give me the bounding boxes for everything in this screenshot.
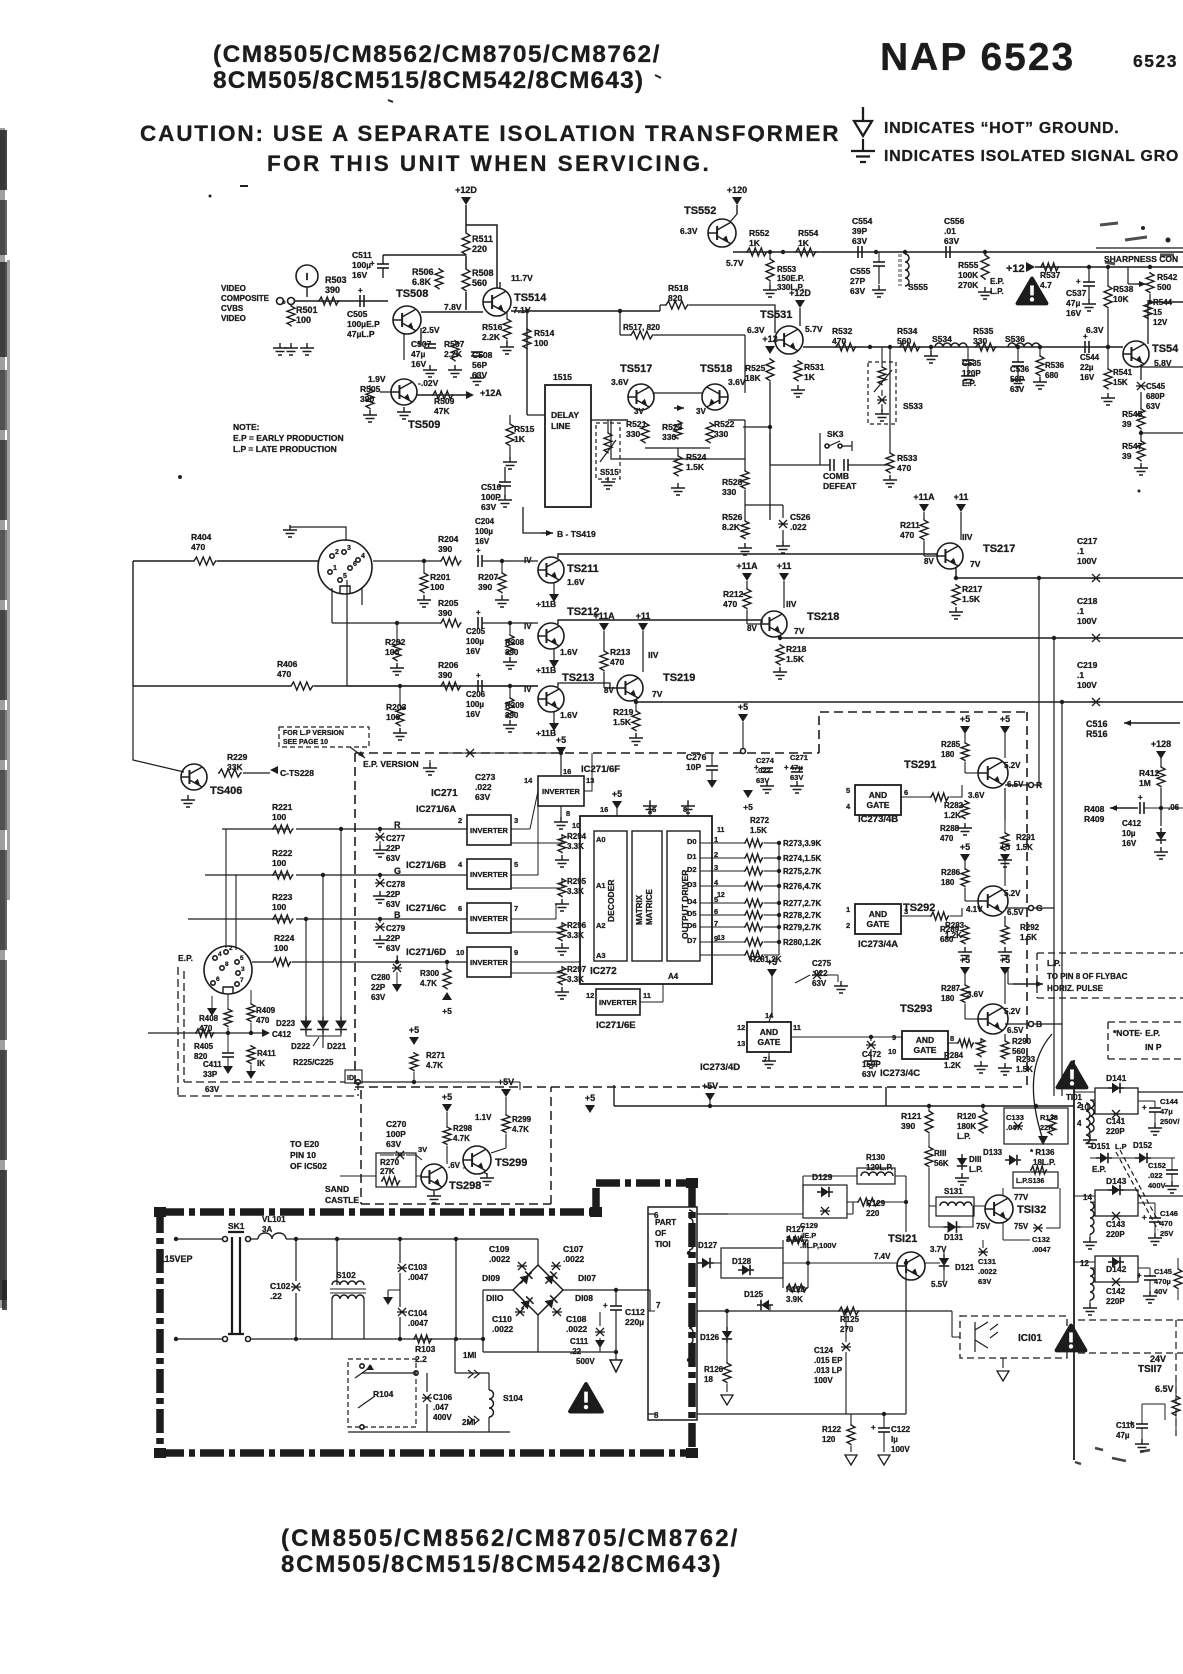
svg-text:.0022: .0022 [978, 1267, 997, 1276]
svg-text:C411: C411 [203, 1060, 222, 1069]
svg-text:100µE.P: 100µE.P [347, 319, 380, 329]
svg-text:S104: S104 [503, 1393, 523, 1403]
svg-text:R128: R128 [786, 1285, 806, 1294]
svg-text:R289: R289 [940, 925, 960, 934]
svg-text:22µ: 22µ [1080, 363, 1094, 372]
inverter IC271/6D [467, 947, 511, 977]
capacitor C111 [595, 1328, 605, 1336]
resistor R212 [743, 588, 751, 610]
capacitor C537 [1087, 265, 1091, 269]
transistor TS213 [538, 686, 564, 712]
svg-text:R273,3.9K: R273,3.9K [783, 839, 821, 848]
svg-text:C204: C204 [475, 517, 495, 526]
svg-text:75V: 75V [976, 1222, 991, 1231]
svg-text:+5: +5 [612, 789, 622, 799]
svg-text:IC273/4B: IC273/4B [858, 814, 898, 825]
resistor R125 [838, 1307, 860, 1315]
resistor R223 [272, 915, 294, 923]
svg-text:C218: C218 [1077, 596, 1098, 606]
svg-text:7: 7 [763, 1055, 767, 1064]
resistor R524 [674, 455, 682, 477]
svg-text:C152: C152 [1148, 1161, 1166, 1170]
svg-text:1.5K: 1.5K [750, 826, 767, 835]
svg-text:47K: 47K [434, 406, 450, 416]
svg-text:100V: 100V [1077, 556, 1097, 566]
svg-text:1: 1 [333, 565, 337, 572]
wire bridge outputs [483, 1290, 650, 1352]
svg-text:CASTLE: CASTLE [325, 1195, 359, 1205]
resistor R538 [1106, 265, 1110, 269]
svg-text:R225/C225: R225/C225 [293, 1058, 334, 1067]
svg-text:100µ: 100µ [475, 527, 493, 536]
svg-text:1515: 1515 [553, 372, 572, 382]
svg-text:C219: C219 [1077, 660, 1098, 670]
svg-text:C280: C280 [371, 973, 391, 982]
diode D127 [698, 1258, 714, 1268]
wire TS514 emitter row [511, 311, 660, 415]
svg-text:R203: R203 [386, 702, 407, 712]
svg-text:+12D: +12D [789, 288, 811, 298]
transistor TS212 [538, 623, 564, 649]
svg-text:16V: 16V [1066, 308, 1081, 318]
resistor R283 [930, 912, 949, 920]
svg-text:COMB: COMB [823, 471, 849, 481]
svg-text:R532: R532 [832, 326, 853, 336]
svg-text:16V: 16V [1080, 373, 1095, 382]
svg-text:C104: C104 [408, 1309, 428, 1318]
svg-text:INVERTER: INVERTER [470, 826, 509, 835]
svg-text:1K: 1K [514, 434, 526, 444]
svg-text:1K: 1K [798, 238, 810, 248]
svg-text:330: 330 [626, 429, 640, 439]
svg-text:R202: R202 [385, 637, 406, 647]
svg-text:C554: C554 [852, 216, 873, 226]
capacitor C112 [615, 1290, 617, 1306]
svg-text:R120: R120 [957, 1112, 977, 1121]
svg-text:+5: +5 [1000, 955, 1010, 965]
capacitor C133 R133 box [1004, 1108, 1068, 1144]
svg-text:1.6V: 1.6V [560, 710, 578, 720]
coil S131 [936, 1197, 974, 1216]
svg-text:R518: R518 [668, 283, 689, 293]
svg-text:D223: D223 [276, 1019, 296, 1028]
inverter IC271/6E [596, 989, 640, 1015]
svg-text:IV: IV [524, 685, 532, 694]
svg-text:C103: C103 [408, 1263, 428, 1272]
svg-text:C112: C112 [625, 1307, 645, 1317]
svg-text:R524: R524 [686, 452, 707, 462]
svg-text:TS217: TS217 [983, 543, 1015, 555]
svg-text:+11B: +11B [536, 728, 556, 738]
trimmer S533 [868, 362, 896, 424]
svg-text:16V: 16V [475, 537, 490, 546]
svg-text:270: 270 [840, 1325, 854, 1334]
svg-text:390: 390 [478, 582, 492, 592]
svg-text:4.7K: 4.7K [453, 1134, 470, 1143]
svg-text:TS508: TS508 [396, 288, 428, 300]
svg-text:C507: C507 [411, 339, 432, 349]
svg-text:C511: C511 [352, 250, 372, 260]
svg-text:*NOTE· E.P.: *NOTE· E.P. [1113, 1028, 1160, 1038]
bridge diodes [517, 1269, 536, 1288]
svg-text:3.3K: 3.3K [567, 931, 584, 940]
wire TS406 up [133, 686, 184, 772]
svg-text:6: 6 [216, 976, 220, 983]
capacitor C132 [1033, 1224, 1043, 1232]
svg-text:R285: R285 [941, 740, 961, 749]
svg-text:7V: 7V [970, 559, 981, 569]
svg-text:(CM8505/CM8562/CM8705/CM8762/: (CM8505/CM8562/CM8705/CM8762/ [213, 41, 661, 68]
warning triangle bottom right [1057, 1326, 1086, 1351]
svg-text:R507: R507 [444, 339, 465, 349]
resistor R554 [795, 248, 817, 256]
svg-text:R209: R209 [505, 701, 525, 710]
transistor TS509 [391, 379, 417, 405]
diode D133 [1005, 1155, 1021, 1165]
transistor TS514 [483, 288, 511, 316]
wire TS552 emitter row y252 [733, 251, 1183, 253]
svg-text:TS54: TS54 [1152, 343, 1179, 355]
svg-text:.0022: .0022 [563, 1254, 585, 1264]
svg-text:1: 1 [846, 905, 850, 914]
svg-text:12: 12 [586, 991, 594, 1000]
svg-text:C275: C275 [812, 959, 832, 968]
wire TS211 out y554 [558, 554, 938, 558]
svg-text:500: 500 [1157, 282, 1171, 292]
svg-text:IC273/4C: IC273/4C [880, 1068, 920, 1079]
svg-text:3.6V: 3.6V [728, 377, 746, 387]
svg-text:R271: R271 [426, 1051, 446, 1060]
svg-text:C279: C279 [386, 924, 406, 933]
svg-text:16V: 16V [1122, 839, 1137, 848]
svg-text:1.2K: 1.2K [944, 811, 961, 820]
svg-text:14: 14 [524, 776, 533, 785]
svg-text:GATE: GATE [867, 919, 890, 929]
svg-text:C412: C412 [1122, 819, 1142, 828]
strike-through marking [1116, 1150, 1162, 1230]
svg-text:47µ: 47µ [1116, 1431, 1130, 1440]
wire right loop vertical [455, 1239, 457, 1339]
resistor R552 [746, 248, 768, 256]
svg-text:63V: 63V [978, 1277, 991, 1286]
capacitor C270 [395, 1151, 405, 1159]
svg-text:1K: 1K [804, 372, 816, 382]
svg-text:C516: C516 [1086, 719, 1108, 729]
wire top secondary y1106 [614, 1085, 1074, 1106]
svg-text:100: 100 [534, 338, 548, 348]
svg-text:D129: D129 [812, 1172, 833, 1182]
capacitor C102 [291, 1283, 301, 1291]
wire 6F out to IC272 [511, 753, 663, 1002]
resistor R280 [744, 938, 763, 946]
resistor R282 [930, 793, 949, 801]
svg-text:R211: R211 [900, 520, 920, 530]
svg-text:MATRIX: MATRIX [635, 894, 644, 925]
svg-text:7: 7 [514, 904, 518, 913]
legend hot ground symbol [854, 107, 872, 136]
svg-text:8V: 8V [604, 686, 614, 695]
wire RGBI rows to EP DIN2 and diode taps [226, 829, 341, 1018]
svg-text:470: 470 [256, 1016, 270, 1025]
svg-text:+12A: +12A [480, 388, 502, 398]
svg-text:22P: 22P [386, 890, 401, 899]
svg-text:47µL.P: 47µL.P [347, 329, 375, 339]
svg-text:220: 220 [866, 1209, 880, 1218]
svg-text:39: 39 [1122, 451, 1132, 461]
part of T101 box [648, 1207, 697, 1420]
svg-text:18K: 18K [745, 373, 761, 383]
svg-text:TS292: TS292 [903, 902, 935, 914]
bottom right specks [1075, 1448, 1150, 1464]
svg-text:4: 4 [361, 553, 365, 560]
svg-text:B - TS419: B - TS419 [557, 529, 596, 539]
diode D111 [957, 1154, 967, 1170]
capacitor C103 [397, 1264, 407, 1272]
svg-text:11: 11 [717, 827, 725, 834]
svg-text:8CM505/8CM515/8CM542/8CM643): 8CM505/8CM515/8CM542/8CM643) [281, 1551, 722, 1578]
svg-text:A0: A0 [596, 835, 606, 844]
resistor R515 [506, 423, 514, 447]
wire TS219 out y702 [636, 700, 1183, 702]
svg-text:C556: C556 [944, 216, 965, 226]
svg-text:R501: R501 [296, 305, 318, 315]
svg-text:4.7K: 4.7K [512, 1125, 529, 1134]
resistor R203 [396, 705, 404, 727]
svg-text:C111: C111 [570, 1337, 589, 1346]
svg-text:100: 100 [430, 582, 444, 592]
svg-text:R104: R104 [373, 1389, 394, 1399]
svg-text:SHARPNESS CON: SHARPNESS CON [1104, 254, 1178, 264]
resistor R294 [558, 834, 566, 853]
svg-text:R291: R291 [1016, 833, 1036, 842]
svg-text:D1: D1 [687, 852, 697, 861]
svg-text:470: 470 [199, 1024, 213, 1033]
svg-text:R503: R503 [325, 275, 347, 285]
svg-text:-.02V: -.02V [418, 378, 439, 388]
svg-text:100µ: 100µ [466, 637, 484, 646]
svg-text:R121: R121 [901, 1111, 922, 1121]
svg-text:+11A: +11A [736, 561, 758, 571]
svg-text:3: 3 [347, 545, 351, 552]
svg-text:IC271/6E: IC271/6E [596, 1020, 636, 1031]
svg-text:R213: R213 [610, 647, 631, 657]
svg-text:D3: D3 [687, 880, 697, 889]
svg-text:75V: 75V [1014, 1222, 1029, 1231]
wire TS213 out to TS219 [558, 683, 617, 688]
svg-text:2: 2 [458, 816, 462, 825]
svg-text:.22: .22 [270, 1291, 282, 1301]
warning triangle PSU [570, 1384, 602, 1411]
svg-text:L.P = LATE PRODUCTION: L.P = LATE PRODUCTION [233, 444, 337, 454]
svg-text:C133: C133 [1006, 1113, 1024, 1122]
resistor R273 [744, 839, 763, 847]
svg-text:R129: R129 [866, 1199, 886, 1208]
svg-text:C108: C108 [566, 1314, 587, 1324]
capacitor C218 [1091, 634, 1101, 642]
svg-text:.0022: .0022 [489, 1254, 511, 1264]
svg-text:R554: R554 [798, 228, 819, 238]
svg-text:.1: .1 [1077, 546, 1084, 556]
capacitor C275 [812, 971, 822, 979]
svg-text:TSII7: TSII7 [1138, 1364, 1162, 1375]
svg-text:R295: R295 [567, 877, 587, 886]
svg-text:330: 330 [722, 487, 736, 497]
svg-text:ID: ID [347, 1075, 354, 1082]
svg-text:R300: R300 [420, 969, 440, 978]
svg-text:R536: R536 [1045, 361, 1065, 370]
svg-text:5.2V: 5.2V [1004, 889, 1021, 898]
svg-text:470: 470 [897, 463, 911, 473]
wire TS212 out [558, 620, 762, 624]
svg-text:.022: .022 [475, 782, 492, 792]
resistor R296 [558, 922, 566, 941]
svg-text:180: 180 [941, 994, 955, 1003]
svg-text:470: 470 [723, 599, 737, 609]
resistor R528 [741, 470, 749, 489]
diode D131 [944, 1221, 961, 1233]
svg-text:INDICATES “HOT” GROUND.: INDICATES “HOT” GROUND. [884, 120, 1119, 137]
wire bridge feeds [483, 1239, 538, 1352]
coil S536 [1008, 343, 1040, 347]
svg-text:100: 100 [386, 712, 400, 722]
capacitor C556 [945, 246, 947, 258]
svg-text:R277,2.7K: R277,2.7K [783, 899, 821, 908]
svg-text:120: 120 [822, 1435, 836, 1444]
svg-text:GATE: GATE [914, 1045, 937, 1055]
transistor TS517 [628, 384, 654, 410]
svg-text:S534: S534 [932, 334, 952, 344]
svg-text:SAND: SAND [325, 1184, 349, 1194]
svg-text:1.1V: 1.1V [475, 1113, 492, 1122]
transistor TS531 [775, 326, 803, 354]
resistor R222 [272, 871, 294, 879]
resistor R289 [961, 925, 969, 944]
svg-text:TS514: TS514 [514, 292, 547, 304]
wire verticals from top rail [906, 1106, 983, 1176]
svg-text:470: 470 [1160, 1219, 1173, 1228]
svg-text:47µ: 47µ [411, 349, 425, 359]
svg-text:TS211: TS211 [567, 563, 599, 575]
svg-text:L.P.: L.P. [969, 1165, 983, 1174]
svg-text:15: 15 [1153, 308, 1162, 317]
svg-text:C116: C116 [1116, 1421, 1135, 1430]
svg-text:C535: C535 [962, 359, 982, 368]
svg-text:1M: 1M [1139, 778, 1151, 788]
resistor R503 [318, 297, 340, 305]
resistor R405 [195, 1029, 214, 1037]
T101 core vertical [1073, 1060, 1075, 1460]
resistor R202 [393, 640, 401, 662]
svg-text:5: 5 [514, 860, 518, 869]
svg-text:400V: 400V [1148, 1181, 1166, 1190]
resistor R271 [410, 1052, 418, 1071]
svg-text:C412: C412 [272, 1030, 292, 1039]
svg-text:470: 470 [610, 657, 624, 667]
bridge rectifier diamond [513, 1265, 563, 1315]
svg-text:400V: 400V [433, 1413, 452, 1422]
svg-text:+12D: +12D [455, 185, 477, 195]
resistor R221 [272, 825, 294, 833]
resistor R297 [558, 966, 566, 985]
svg-text:TO PIN 8 OF FLYBAC: TO PIN 8 OF FLYBAC [1047, 972, 1128, 981]
svg-text:C545: C545 [1146, 382, 1166, 391]
svg-text:R287: R287 [941, 984, 961, 993]
svg-text:.013 LP: .013 LP [814, 1366, 843, 1375]
wire R525 down to comb [743, 382, 770, 520]
svg-text:TSI32: TSI32 [1017, 1204, 1046, 1216]
diode D126 [722, 1327, 732, 1343]
svg-text:VIDEO: VIDEO [221, 284, 246, 293]
capacitor C279 [375, 923, 385, 931]
svg-text:VL101: VL101 [262, 1215, 286, 1224]
svg-text:E.P.: E.P. [990, 277, 1004, 286]
grounds video input [273, 343, 287, 355]
svg-text:+: + [1138, 793, 1143, 802]
svg-text:R297: R297 [567, 965, 587, 974]
resistor R517-820 [630, 331, 654, 339]
svg-text:13: 13 [717, 935, 725, 942]
svg-text:R272: R272 [750, 816, 770, 825]
wire +12D rail [466, 222, 497, 310]
stray dot marks [755, 138, 759, 142]
capacitor C145 [1144, 1275, 1156, 1277]
svg-text:R292: R292 [1020, 923, 1040, 932]
svg-text:C508: C508 [472, 350, 493, 360]
svg-text:DI08: DI08 [575, 1293, 593, 1303]
capacitor C544 [1084, 341, 1086, 353]
svg-text:IIV: IIV [962, 532, 973, 542]
resistor R531 [794, 360, 802, 382]
svg-text:R533: R533 [897, 453, 918, 463]
svg-text:6.5V: 6.5V [1007, 1026, 1024, 1035]
capacitor C144 [1149, 1107, 1161, 1109]
svg-text:R286: R286 [941, 868, 961, 877]
resistor R501 [287, 305, 295, 327]
svg-text:RIII: RIII [934, 1149, 946, 1158]
svg-text:TS406: TS406 [210, 785, 242, 797]
resistor R509 [432, 391, 454, 399]
svg-text:.022: .022 [756, 766, 771, 775]
svg-text:390: 390 [325, 285, 340, 295]
resistor R277 [744, 899, 763, 907]
capacitor C526 [778, 520, 788, 528]
resistor R553 [766, 258, 774, 282]
svg-text:R126: R126 [704, 1365, 724, 1374]
svg-text:TI01: TI01 [1066, 1093, 1083, 1102]
wire C412 row [148, 1032, 262, 1034]
resistor R288 [961, 800, 969, 819]
resistor R229 [218, 769, 242, 777]
svg-text:R511: R511 [472, 234, 493, 244]
D128 R127 R128 cluster [721, 1248, 783, 1278]
svg-text:390: 390 [438, 670, 452, 680]
svg-text:.22: .22 [570, 1347, 582, 1356]
svg-text:IN P: IN P [1145, 1042, 1162, 1052]
EP dashed box bottom left [178, 967, 358, 1096]
svg-text:SK3: SK3 [827, 429, 844, 439]
resistor R217 [952, 584, 960, 606]
svg-text:C278: C278 [386, 880, 406, 889]
svg-text:C276: C276 [686, 752, 707, 762]
svg-text:680P: 680P [1146, 392, 1165, 401]
svg-text:5: 5 [846, 786, 850, 795]
svg-text:R522: R522 [714, 419, 735, 429]
svg-text:+11B: +11B [536, 665, 556, 675]
svg-text:IC272: IC272 [590, 966, 617, 977]
capacitor C273 [465, 749, 475, 757]
svg-text:8V: 8V [924, 557, 934, 566]
wire TS517-TS518 loop [611, 393, 745, 459]
